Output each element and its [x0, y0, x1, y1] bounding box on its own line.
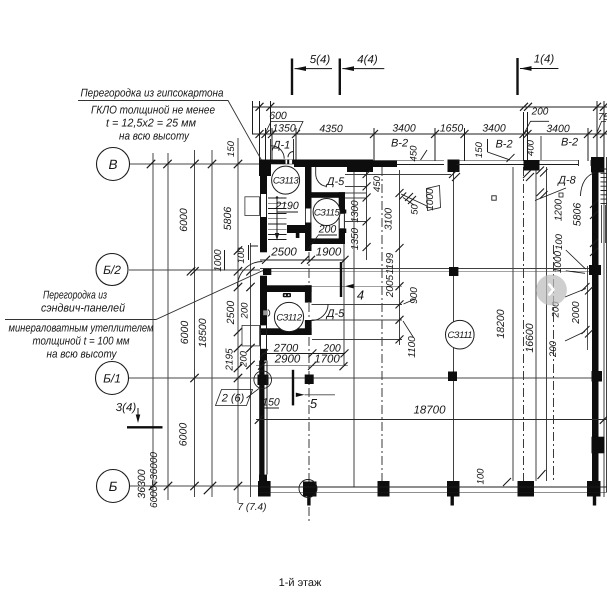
- svg-text:5806: 5806: [572, 203, 584, 227]
- door D-5 upper: [316, 167, 327, 186]
- svg-text:СЗ113: СЗ113: [273, 174, 300, 185]
- svg-text:Д-5: Д-5: [325, 308, 345, 320]
- room tag SZ112: [274, 302, 303, 331]
- svg-text:ГКЛО толщиной не менее: ГКЛО толщиной не менее: [91, 105, 215, 117]
- svg-text:16600: 16600: [524, 323, 536, 352]
- door left wall arc: [238, 262, 263, 287]
- door threshold notches: [286, 160, 288, 164]
- svg-text:Б/2: Б/2: [103, 263, 121, 277]
- svg-text:6000=36000: 6000=36000: [149, 452, 160, 508]
- svg-text:1350: 1350: [350, 227, 361, 250]
- svg-text:2900: 2900: [274, 353, 301, 365]
- section marker 5(4): [292, 59, 332, 96]
- svg-text:450: 450: [409, 145, 420, 162]
- svg-text:В: В: [108, 157, 117, 172]
- svg-text:200: 200: [318, 224, 337, 236]
- top dimension lines: [252, 101, 607, 161]
- svg-text:В-2: В-2: [561, 137, 578, 149]
- svg-text:2195: 2195: [225, 348, 236, 372]
- svg-text:Д-5: Д-5: [325, 176, 345, 188]
- svg-text:100: 100: [236, 247, 247, 264]
- stair hatch right edge: [601, 169, 607, 203]
- svg-text:18500: 18500: [197, 318, 209, 347]
- svg-text:t = 12,5х2 = 25 мм: t = 12,5х2 = 25 мм: [106, 118, 196, 130]
- svg-text:1900: 1900: [316, 247, 342, 259]
- window sill boxes: [245, 197, 260, 216]
- svg-text:СЗ112: СЗ112: [276, 311, 303, 322]
- svg-text:В-2: В-2: [391, 137, 408, 149]
- door D-1 top double arcs: [271, 139, 294, 160]
- svg-text:на всю высоту: на всю высоту: [47, 349, 118, 361]
- svg-text:2500: 2500: [270, 247, 297, 259]
- axis circle B bottom: [97, 470, 130, 503]
- svg-text:200: 200: [240, 302, 251, 320]
- axis circle B/2: [96, 254, 128, 286]
- svg-text:1000: 1000: [553, 250, 564, 273]
- svg-text:2500: 2500: [225, 301, 237, 326]
- svg-text:Перегородка из: Перегородка из: [43, 290, 107, 302]
- svg-text:600: 600: [269, 110, 287, 122]
- svg-text:толщиной t = 100 мм: толщиной t = 100 мм: [33, 336, 130, 348]
- svg-text:4(4): 4(4): [357, 54, 378, 66]
- svg-text:сэндвич-панелей: сэндвич-панелей: [41, 303, 126, 315]
- svg-text:1(4): 1(4): [534, 54, 555, 66]
- corridor dim chain: [363, 170, 371, 251]
- svg-text:200: 200: [239, 350, 250, 368]
- svg-text:1-й этаж: 1-й этаж: [279, 577, 322, 589]
- svg-text:3400: 3400: [392, 123, 416, 135]
- svg-text:100: 100: [554, 233, 565, 250]
- svg-text:Д-8: Д-8: [556, 175, 576, 187]
- room tag SZ111: [446, 320, 475, 349]
- room tag SZ113: [272, 166, 300, 194]
- svg-text:50: 50: [410, 204, 421, 215]
- svg-text:450: 450: [372, 175, 383, 192]
- section cut 4: [340, 262, 342, 297]
- svg-text:4: 4: [357, 288, 364, 303]
- svg-text:1100: 1100: [407, 336, 418, 358]
- svg-text:3400: 3400: [546, 123, 570, 135]
- svg-text:1300: 1300: [350, 200, 361, 223]
- interior thin lines: [260, 101, 607, 497]
- carousel arrow overlay: [536, 275, 567, 306]
- svg-text:6000: 6000: [178, 423, 190, 447]
- svg-text:1700: 1700: [314, 353, 340, 365]
- svg-text:1200: 1200: [554, 198, 565, 221]
- door D-8 top right: [579, 160, 596, 196]
- shaft wall openings: [305, 209, 311, 223]
- svg-text:200: 200: [531, 107, 549, 118]
- svg-text:1000: 1000: [213, 249, 224, 272]
- svg-text:1199: 1199: [385, 252, 396, 274]
- svg-text:2005: 2005: [385, 274, 396, 298]
- svg-text:3400: 3400: [482, 123, 506, 135]
- room tag SZ115: [313, 199, 340, 226]
- dashed partition axis lines: [309, 167, 554, 524]
- svg-text:150: 150: [262, 397, 280, 409]
- section marker 1(4): [518, 58, 559, 95]
- window lines top wall: [259, 160, 607, 492]
- svg-text:Перегородка из гипсокартона: Перегородка из гипсокартона: [81, 88, 224, 100]
- fixtures SZ112: [283, 293, 291, 297]
- grid axis lines: [129, 138, 592, 503]
- svg-text:минераловатным утеплителем: минераловатным утеплителем: [9, 323, 154, 335]
- section marker 4(4): [340, 59, 385, 96]
- svg-text:100: 100: [476, 468, 487, 485]
- pile circles: [299, 480, 317, 498]
- svg-text:7 (7.4): 7 (7.4): [238, 502, 267, 513]
- svg-text:1350: 1350: [272, 123, 296, 135]
- svg-text:на всю высоту: на всю высоту: [119, 131, 190, 143]
- svg-text:75: 75: [598, 112, 607, 123]
- svg-text:СЗ111: СЗ111: [447, 329, 472, 340]
- axis circle B: [97, 148, 130, 181]
- svg-text:4350: 4350: [319, 123, 343, 135]
- svg-text:200: 200: [548, 340, 559, 358]
- svg-text:5806: 5806: [222, 207, 234, 231]
- svg-text:Б: Б: [109, 479, 118, 494]
- svg-text:5(4): 5(4): [310, 54, 331, 66]
- svg-text:18200: 18200: [495, 309, 507, 338]
- svg-text:3(4): 3(4): [116, 402, 137, 414]
- svg-text:В-2: В-2: [495, 139, 512, 151]
- left dimension ticks: [147, 160, 255, 494]
- svg-text:Д-1: Д-1: [271, 140, 291, 152]
- svg-text:СЗ115: СЗ115: [314, 206, 341, 217]
- svg-text:18700: 18700: [414, 405, 447, 417]
- svg-text:Б/1: Б/1: [103, 372, 121, 386]
- svg-text:400: 400: [526, 139, 537, 156]
- walls: [258, 157, 605, 506]
- svg-text:6000: 6000: [178, 208, 190, 232]
- svg-text:2000: 2000: [571, 301, 582, 325]
- svg-text:2 (6): 2 (6): [221, 393, 245, 405]
- svg-text:150: 150: [226, 140, 237, 157]
- svg-text:150: 150: [474, 141, 485, 158]
- stairs: [268, 198, 287, 240]
- svg-text:2190: 2190: [274, 200, 299, 212]
- section cut 5: [292, 370, 294, 406]
- svg-text:1650: 1650: [440, 123, 464, 135]
- svg-text:3100: 3100: [384, 207, 395, 230]
- svg-text:36300: 36300: [136, 469, 148, 498]
- svg-text:6000: 6000: [179, 321, 191, 345]
- small wall box marker: [492, 196, 496, 200]
- dimension ticks top: [256, 103, 607, 138]
- door D-5 at SZ112: [312, 304, 329, 321]
- axis circle B/1: [96, 362, 129, 395]
- svg-text:5: 5: [310, 396, 318, 411]
